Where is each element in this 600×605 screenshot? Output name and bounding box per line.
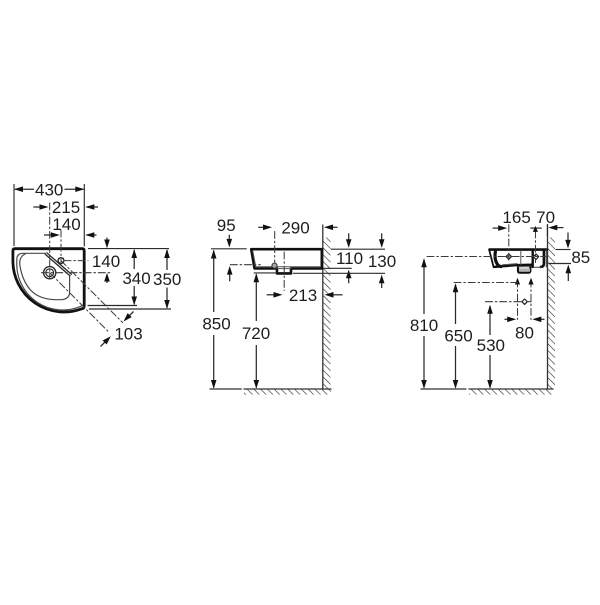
outlet diamond	[522, 299, 527, 304]
centerline horizontal through drain	[42, 272, 111, 274]
extension line 340 bottom	[88, 305, 138, 307]
extension line right	[83, 184, 85, 247]
extension 130 bottom line	[293, 272, 385, 274]
floor line plain	[421, 388, 466, 390]
wall hatch	[323, 238, 331, 390]
basin bottom edge	[494, 265, 532, 267]
bracket bottom line	[534, 266, 542, 268]
svg-text:290: 290	[281, 218, 309, 237]
basin top edge	[490, 248, 548, 251]
basin profile	[251, 249, 322, 273]
svg-text:340: 340	[122, 269, 150, 288]
dim 650 line	[455, 285, 457, 325]
extension line top right	[88, 248, 169, 250]
label 430	[34, 183, 65, 197]
dim 80 right arrow	[535, 318, 545, 320]
centerline drain vertical	[283, 252, 285, 291]
svg-text:103: 103	[114, 324, 142, 343]
svg-text:350: 350	[153, 270, 181, 289]
svg-text:130: 130	[368, 252, 396, 271]
centerline left hole vertical	[508, 225, 510, 263]
dim 430 right arrow	[75, 186, 84, 192]
trap inner line	[518, 266, 530, 268]
svg-text:70: 70	[536, 208, 555, 227]
dim 130 up arrow	[381, 278, 383, 288]
supply axis horizontal 650	[454, 282, 518, 284]
svg-text:850: 850	[202, 314, 230, 333]
wall face line	[547, 225, 549, 389]
dim 850 line	[213, 251, 215, 313]
dim 140 right arrow	[87, 234, 97, 236]
rim section thick curve	[495, 252, 501, 267]
svg-text:165: 165	[502, 208, 530, 227]
centerline right hole vertical	[535, 231, 537, 263]
drain axis vertical left	[517, 280, 519, 320]
dim 165 left arrow	[493, 227, 505, 229]
extension 720 line	[254, 272, 277, 274]
wall face line	[322, 225, 324, 389]
centerline 95 horizontal	[230, 264, 260, 266]
bowl bottom inner line	[503, 264, 518, 265]
dim 95 down arrow	[228, 235, 230, 245]
dim 810 line	[423, 260, 425, 315]
floor line plain	[210, 388, 241, 390]
dim 213 left arrow	[267, 294, 280, 296]
dim 140 vertical bottom arrow	[106, 276, 108, 284]
extension top-left line	[211, 248, 247, 250]
svg-text:95: 95	[217, 216, 236, 235]
svg-text:530: 530	[477, 336, 505, 355]
diagonal centerline through faucet	[61, 261, 123, 323]
tab top line	[277, 268, 291, 270]
basin left slant edge	[489, 250, 493, 267]
deck diagonal edge line 1	[45, 254, 70, 276]
dim 213 right arrow	[328, 294, 343, 296]
wall hatch	[548, 238, 556, 390]
extension 110 top line	[331, 248, 385, 250]
faucet hole	[58, 258, 64, 264]
drain axis vertical right arrowhead	[528, 278, 533, 285]
svg-text:140: 140	[92, 252, 120, 271]
centerline vertical through faucet	[60, 230, 62, 266]
svg-text:720: 720	[242, 324, 270, 343]
extension 85 top line	[556, 249, 571, 251]
basin outer outline	[13, 249, 84, 312]
extension line 350 bottom	[89, 308, 171, 310]
svg-text:110: 110	[336, 249, 363, 268]
dim 95 up arrow	[229, 269, 231, 282]
dim 430 line	[15, 188, 84, 190]
floor hatched	[244, 389, 331, 395]
dim 140 left arrow	[44, 234, 58, 236]
svg-text:85: 85	[571, 248, 590, 267]
dim 140 vertical top arrow	[106, 238, 108, 246]
dim 340 line	[133, 250, 135, 269]
dim 215 left arrow	[33, 206, 46, 208]
trap box	[518, 265, 530, 273]
dim 290 right arrow	[326, 226, 338, 228]
fixing hole diamond left	[506, 254, 511, 259]
bowl contour	[20, 254, 70, 300]
dim 290 left arrow	[258, 226, 269, 228]
drain hole	[44, 267, 56, 279]
dim 70 right arrow	[551, 227, 564, 229]
dim 130 down arrow	[381, 233, 383, 244]
dim 80 left arrow	[505, 318, 514, 320]
dim 720 line	[255, 275, 257, 322]
svg-text:80: 80	[515, 324, 534, 343]
basin inner bottom line	[256, 266, 321, 268]
dim 165/70 shared marker	[530, 227, 541, 229]
basin inner rim line	[17, 253, 82, 310]
diagonal centerline through drain	[50, 273, 109, 332]
basin back face line	[545, 250, 547, 267]
dim 103 upper arrow	[127, 312, 134, 319]
extension 85 bottom line	[549, 263, 572, 265]
svg-text:140: 140	[52, 215, 80, 234]
bracket right wall	[541, 251, 544, 267]
dim 530 line	[489, 306, 491, 335]
svg-text:213: 213	[289, 286, 317, 305]
dim 430 left arrow	[14, 186, 23, 192]
centerline vertical through drain	[49, 203, 51, 279]
extension 110 bottom line	[324, 267, 352, 269]
centerline overflow vertical	[274, 232, 276, 264]
dim 103 lower arrow	[101, 341, 107, 347]
dim 110 up arrow	[348, 273, 350, 284]
floor hatched	[469, 389, 553, 395]
bracket left wall	[532, 251, 534, 268]
dim 85 up arrow	[567, 268, 569, 282]
bowl back line	[520, 251, 522, 265]
dim 110 down arrow	[348, 233, 350, 244]
fixing hole diamond right	[533, 254, 538, 259]
trap gray fill	[519, 268, 530, 271]
drain axis vertical right	[530, 280, 532, 320]
wall extension line top	[546, 225, 548, 236]
svg-text:810: 810	[410, 316, 438, 335]
deck diagonal edge line 2	[47, 253, 72, 274]
dim 350 line	[166, 250, 168, 270]
dim 215 right arrow	[87, 206, 99, 208]
dim 85 down arrow	[567, 233, 569, 246]
outlet axis horizontal	[486, 301, 532, 303]
basin inner left slant line	[253, 251, 256, 267]
drain axis vertical left arrowhead	[515, 278, 520, 285]
centerline horizontal through faucet	[64, 260, 88, 262]
svg-text:430: 430	[35, 180, 63, 199]
overflow hole	[272, 263, 277, 268]
svg-text:650: 650	[444, 326, 472, 345]
axis horizontal centerline	[427, 256, 547, 258]
extension line left	[13, 184, 15, 246]
